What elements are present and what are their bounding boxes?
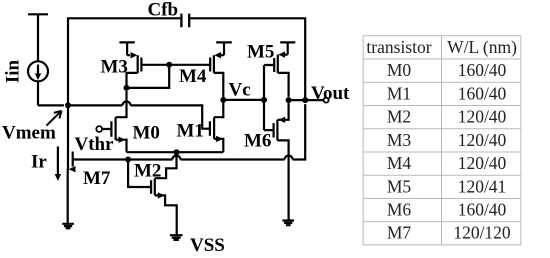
label Vthr — [75, 134, 115, 155]
svg-text:M0: M0 — [387, 60, 412, 80]
svg-text:M2: M2 — [387, 107, 411, 127]
transistor M2 — [151, 152, 177, 234]
arrow of M5 source — [278, 51, 285, 57]
svg-text:M5: M5 — [247, 42, 274, 63]
arrow of M0 source — [119, 137, 126, 143]
wire line B: M7 gate to Vout riser with hops — [76, 104, 305, 159]
svg-text:Ir: Ir — [31, 152, 47, 173]
label M7 — [83, 168, 111, 189]
node dot gates riser on Vc line — [261, 97, 267, 103]
arrow of M2 source — [158, 192, 165, 198]
transistor M7 — [68, 105, 76, 223]
svg-text:M3: M3 — [387, 130, 412, 150]
arrow of M1 source — [216, 136, 223, 142]
transistor M6 — [274, 103, 289, 220]
svg-text:120/40: 120/40 — [458, 107, 507, 127]
wire line A: M0/M1 common source — [127, 151, 224, 153]
arrow of M4 source — [214, 52, 221, 58]
capacitor Cfb — [181, 14, 189, 28]
supply T-bar for M5 — [280, 42, 295, 54]
svg-text:120/40: 120/40 — [458, 130, 507, 150]
current source Iin — [28, 61, 48, 105]
wire mirror gate line to M4 — [169, 64, 210, 66]
transistor M5 — [274, 55, 288, 97]
arrow of M3 source — [131, 52, 138, 58]
svg-text:Vmem: Vmem — [2, 123, 56, 144]
label M6 — [244, 131, 271, 152]
wire Vc line to inverter gates — [223, 99, 264, 101]
ground below M2 (VSS) — [170, 235, 183, 240]
transistor M3 — [127, 55, 170, 88]
label Vout — [311, 83, 350, 104]
label Cfb — [148, 0, 179, 21]
svg-text:Cfb: Cfb — [148, 0, 179, 21]
node Vmem junction dot — [65, 102, 71, 108]
svg-text:M6: M6 — [387, 200, 412, 220]
label M0 — [133, 123, 160, 144]
supply T-bar for M4 — [216, 42, 232, 55]
arrow of M6 drain — [278, 117, 285, 123]
ground below M7 — [62, 224, 74, 229]
wire inverter gates riser — [264, 65, 274, 130]
arrowhead of Iin source — [35, 74, 41, 81]
svg-text:160/40: 160/40 — [458, 83, 507, 103]
svg-text:M4: M4 — [387, 153, 412, 173]
label M5 — [247, 42, 274, 63]
arrow of M7 source — [69, 166, 76, 172]
arrow label pointer Vmem — [46, 111, 61, 126]
transistor M1 — [210, 100, 223, 152]
wire Vmem line with hop over M0 drain — [68, 101, 210, 128]
transistor M0 — [102, 91, 126, 152]
wire Vout line — [289, 99, 324, 101]
svg-text:Vc: Vc — [229, 80, 251, 101]
svg-text:120/41: 120/41 — [458, 176, 507, 196]
svg-text:M5: M5 — [387, 176, 412, 196]
terminal circle Vout — [324, 98, 329, 103]
svg-text:W/L (nm): W/L (nm) — [447, 37, 517, 57]
transistor M4 — [210, 55, 224, 97]
node Vc dot at M4/M1 drains — [220, 97, 226, 103]
svg-text:160/40: 160/40 — [458, 200, 507, 220]
label Vc — [229, 80, 251, 101]
ground below M6 — [282, 221, 294, 226]
label M3 — [101, 57, 128, 78]
node dot M2 gate tap on line B — [125, 157, 131, 163]
node dots on Vout line — [286, 97, 309, 103]
wire M2 gate riser — [128, 160, 151, 188]
svg-text:M2: M2 — [134, 161, 161, 182]
svg-text:M1: M1 — [177, 121, 204, 142]
svg-text:Iin: Iin — [2, 59, 23, 83]
svg-text:M3: M3 — [101, 57, 128, 78]
wire Cfb right plate to Vout riser — [190, 18, 305, 100]
arrow current Ir — [55, 147, 61, 182]
svg-text:160/40: 160/40 — [458, 60, 507, 80]
label Iin — [2, 59, 23, 83]
svg-text:M6: M6 — [244, 131, 271, 152]
table text — [366, 37, 517, 243]
svg-text:120/120: 120/120 — [453, 223, 511, 243]
svg-text:M0: M0 — [133, 123, 160, 144]
svg-text:M4: M4 — [179, 66, 207, 87]
svg-text:M7: M7 — [83, 168, 111, 189]
label Vmem — [2, 123, 56, 144]
table grid — [363, 36, 521, 245]
terminal circle Vthr — [96, 126, 102, 132]
wire Iin to Vmem node — [38, 104, 64, 106]
label Ir — [31, 152, 47, 173]
label M2 — [134, 161, 161, 182]
svg-text:Vthr: Vthr — [75, 134, 115, 155]
label M4 — [179, 66, 207, 87]
supply T-bar for Iin — [28, 14, 48, 61]
svg-text:Vout: Vout — [311, 83, 350, 104]
svg-text:120/40: 120/40 — [458, 153, 507, 173]
svg-text:VSS: VSS — [190, 235, 225, 256]
svg-text:M7: M7 — [387, 223, 412, 243]
node dot tail on line A — [174, 149, 180, 155]
node M3/M0 drain dot and wire to mirror — [127, 65, 170, 88]
wire Vmem node to Cfb (left riser) — [68, 18, 180, 105]
label M1 — [177, 121, 204, 142]
label VSS — [190, 235, 225, 256]
svg-text:transistor: transistor — [366, 37, 431, 57]
svg-text:M1: M1 — [387, 83, 411, 103]
supply T-bar for M3 — [119, 42, 134, 55]
